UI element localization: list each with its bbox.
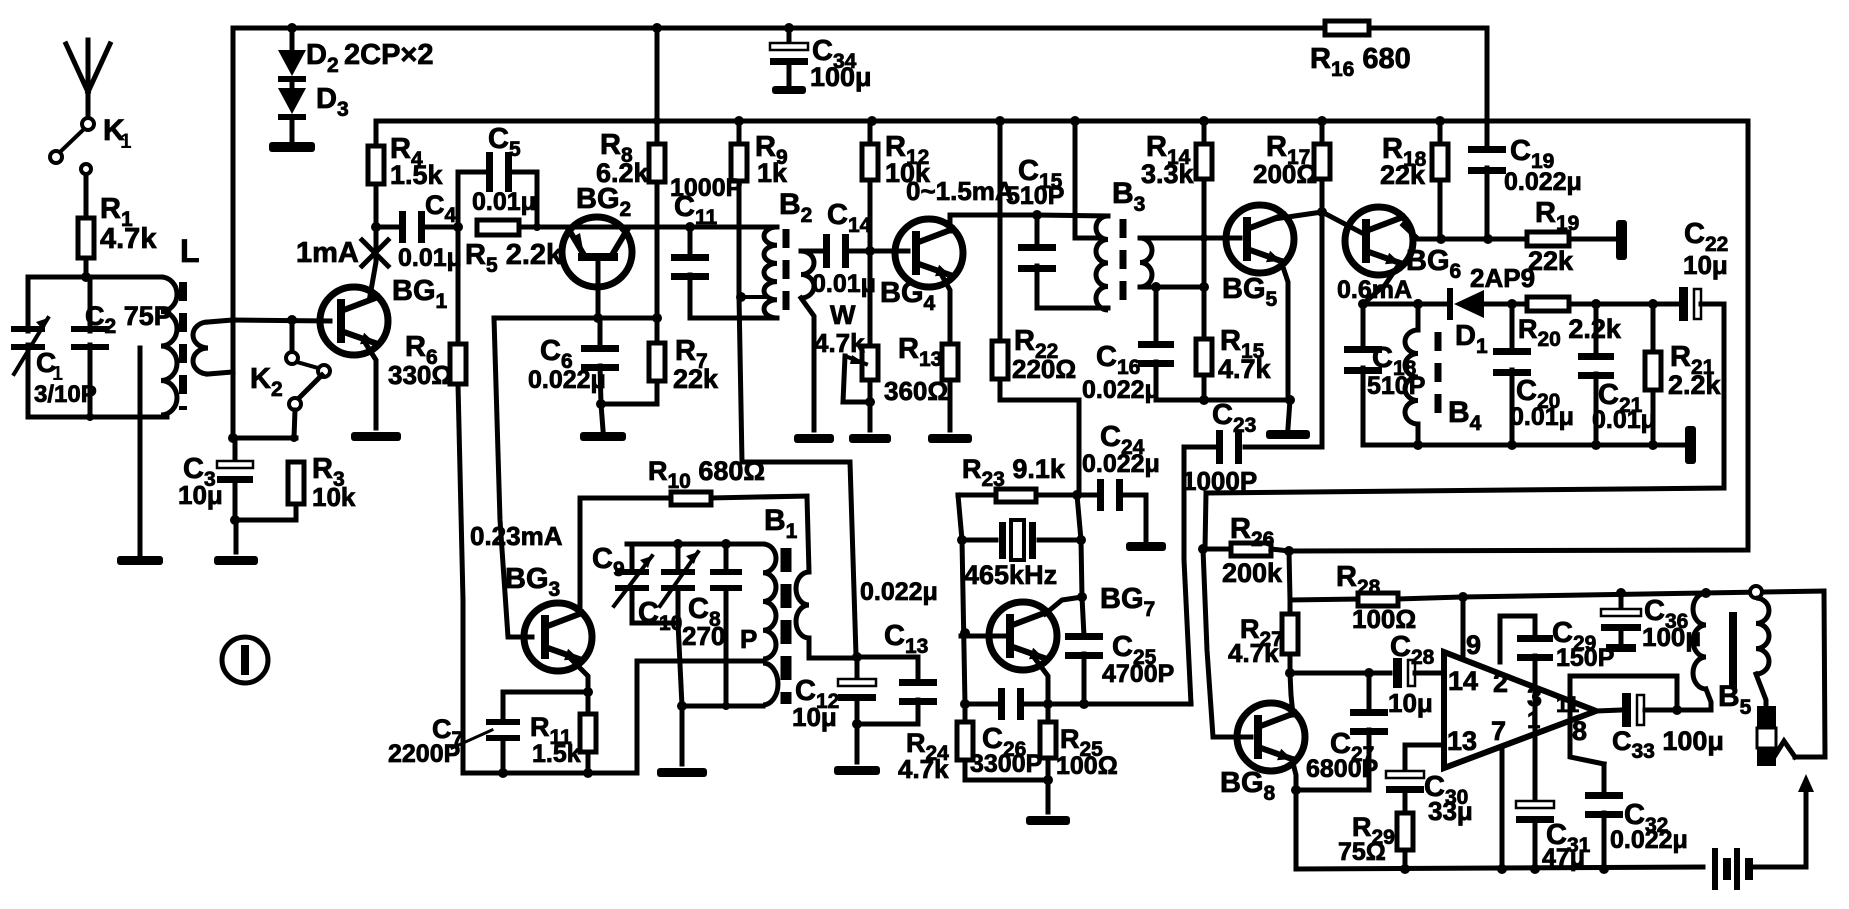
svg-text:10μ: 10μ <box>792 702 837 732</box>
wire: BG6 emitter <box>1363 263 1400 304</box>
wire <box>28 275 161 280</box>
wire <box>233 320 330 321</box>
svg-text:10k: 10k <box>312 482 356 512</box>
svg-text:1k: 1k <box>757 158 788 188</box>
svg-text:220Ω: 220Ω <box>1012 354 1076 384</box>
svg-text:0.01μ: 0.01μ <box>812 270 876 298</box>
wire <box>1369 28 1487 121</box>
transformer B2 core <box>783 229 790 316</box>
resistor R8 <box>652 23 662 33</box>
svg-text:1.5k: 1.5k <box>390 160 444 190</box>
wire <box>1363 443 1688 448</box>
svg-text:200k: 200k <box>1222 558 1283 588</box>
terminal <box>1685 426 1696 464</box>
resistor R4 <box>374 121 379 146</box>
capacitor C34 <box>784 23 794 33</box>
svg-text:0.022μ: 0.022μ <box>528 366 606 394</box>
transformer B1 primary <box>763 544 776 659</box>
svg-text:4.7k: 4.7k <box>898 754 949 784</box>
svg-text:2.2k: 2.2k <box>1668 370 1722 400</box>
capacitor C26 <box>965 702 998 707</box>
wire <box>682 704 763 709</box>
transformer B2 primary <box>764 227 777 318</box>
wire <box>28 415 167 420</box>
switch K2 <box>290 325 295 351</box>
resistor R28 <box>1290 599 1358 600</box>
wire <box>958 495 965 704</box>
svg-text:1mA: 1mA <box>296 237 359 269</box>
resistor R16 <box>1325 21 1369 35</box>
svg-text:33μ: 33μ <box>1428 796 1473 826</box>
svg-text:0.6mA: 0.6mA <box>1337 276 1412 304</box>
capacitor C15 <box>1032 210 1042 220</box>
svg-text:3.3k: 3.3k <box>1141 159 1195 189</box>
resistor R13 <box>941 274 950 344</box>
wire <box>1156 398 1290 403</box>
transistor BG8 <box>1237 703 1305 771</box>
svg-text:465kHz: 465kHz <box>964 560 1057 590</box>
wire <box>1147 236 1240 241</box>
svg-text:4.7k: 4.7k <box>100 223 157 255</box>
capacitor C1 <box>26 277 31 331</box>
capacitor C12 <box>852 652 862 662</box>
capacitor C5 <box>453 222 463 232</box>
svg-text:360Ω: 360Ω <box>884 376 948 406</box>
wire <box>1290 671 1390 676</box>
svg-text:0.022μ: 0.022μ <box>1504 168 1582 196</box>
resistor R9 <box>734 116 744 126</box>
wire <box>950 215 1035 231</box>
wire <box>1036 493 1077 498</box>
wire: BG8 base <box>1203 549 1251 737</box>
transistor BG4 <box>895 219 963 287</box>
capacitor C23 <box>1245 445 1322 450</box>
antenna <box>86 40 91 92</box>
wire: audio rail <box>1463 591 1824 597</box>
capacitor C20 <box>1510 304 1515 352</box>
resistor R25 <box>1046 704 1051 722</box>
wire <box>1156 285 1204 290</box>
earphone <box>1757 706 1776 728</box>
wire <box>1322 212 1364 234</box>
wire: output <box>1596 710 1622 711</box>
resistor R26 <box>1198 544 1208 554</box>
capacitor C25 <box>1082 597 1084 636</box>
svg-text:7: 7 <box>1491 716 1506 746</box>
strain relief <box>1774 741 1795 757</box>
wire: left rail <box>231 28 236 438</box>
switch K1 <box>82 118 94 130</box>
svg-text:200Ω: 200Ω <box>1253 159 1317 189</box>
wire <box>690 225 777 230</box>
wire <box>632 621 678 626</box>
capacitor C27 <box>1367 673 1372 712</box>
wire <box>494 316 657 321</box>
wire <box>578 498 580 614</box>
capacitor C16 <box>1151 282 1161 292</box>
resistor R12 <box>867 116 877 126</box>
capacitor C2 <box>88 277 93 331</box>
wire <box>84 175 89 218</box>
wire <box>742 462 856 655</box>
capacitor C7 <box>501 692 506 721</box>
svg-text:75Ω: 75Ω <box>1338 838 1386 866</box>
capacitor C24 <box>1077 493 1096 498</box>
svg-text:6800P: 6800P <box>1306 755 1378 783</box>
wire <box>233 436 296 441</box>
wire <box>1363 302 1449 307</box>
crystal 465kHz <box>962 538 996 543</box>
wire: osc output <box>1184 447 1191 704</box>
wire <box>503 690 588 695</box>
terminal <box>1616 220 1627 260</box>
svg-text:P: P <box>740 624 757 654</box>
svg-text:0.022μ: 0.022μ <box>1082 376 1160 404</box>
wire <box>1045 597 1082 614</box>
capacitor C31 <box>1516 801 1554 808</box>
ground <box>772 86 806 94</box>
wire <box>84 258 89 277</box>
svg-text:0.022μ: 0.022μ <box>860 578 938 606</box>
svg-text:0.022μ: 0.022μ <box>1082 450 1160 478</box>
capacitor C30 <box>1405 745 1444 772</box>
ground <box>351 432 401 441</box>
wire <box>1274 212 1322 219</box>
svg-text:10μ: 10μ <box>178 480 223 510</box>
svg-text:L: L <box>180 233 200 269</box>
resistor R21 <box>1651 304 1656 352</box>
transformer B5 primary <box>1693 593 1706 689</box>
wire: BG2 emitter <box>596 261 601 318</box>
resistor R3 <box>288 462 304 504</box>
capacitor C29 <box>1500 616 1535 662</box>
transformer B1 secondary <box>807 497 809 572</box>
capacitor C13 <box>857 657 918 682</box>
capacitor C6 <box>598 318 603 349</box>
trimmer C9 <box>630 544 635 572</box>
wire <box>519 225 690 230</box>
wire <box>463 771 637 776</box>
wire <box>1795 591 1825 757</box>
svg-text:22k: 22k <box>1380 160 1426 190</box>
node A <box>371 222 381 232</box>
capacitor C3 <box>233 438 238 462</box>
potentiometer W <box>862 346 878 380</box>
resistor R7 <box>655 318 660 343</box>
wire: BG8 emitter <box>1292 759 1296 790</box>
resistor R23 <box>996 489 1036 502</box>
resistor R15 <box>1202 287 1207 339</box>
svg-text:150P: 150P <box>1556 644 1614 672</box>
capacitor C8 <box>724 544 729 570</box>
ground <box>928 434 972 443</box>
capacitor C33 <box>1622 693 1631 727</box>
svg-text:510P: 510P <box>1006 182 1064 210</box>
svg-text:100Ω: 100Ω <box>1056 752 1118 780</box>
meter symbol I <box>222 637 268 683</box>
svg-text:10μ: 10μ <box>1683 250 1728 280</box>
diode D2 <box>287 23 297 33</box>
wire <box>1037 215 1108 216</box>
capacitor C18 <box>1361 304 1366 350</box>
wire: pin 7 ground <box>1500 747 1505 869</box>
ground <box>849 434 891 443</box>
ground <box>234 520 239 552</box>
transistor BG6 <box>1345 207 1413 275</box>
ground <box>1046 780 1051 812</box>
transformer B3 primary <box>1096 216 1108 310</box>
wire <box>1484 302 1527 307</box>
wire <box>1569 237 1614 242</box>
coupling coil <box>193 322 208 374</box>
capacitor C4 <box>376 225 401 230</box>
transistor BG5 <box>1226 205 1294 273</box>
svg-text:W: W <box>830 300 856 330</box>
wire <box>958 493 996 498</box>
svg-text:2200P: 2200P <box>388 740 460 768</box>
transformer B3 secondary <box>1140 238 1152 287</box>
svg-text:4.7k: 4.7k <box>814 328 865 358</box>
oscillator caps bus <box>627 542 763 547</box>
resistor R10 <box>580 496 671 501</box>
resistor R6 <box>456 227 461 344</box>
wire <box>1320 212 1325 447</box>
svg-text:0.022μ: 0.022μ <box>1610 826 1688 854</box>
wire: BG7 emitter <box>1033 656 1048 704</box>
resistor R19 <box>1527 232 1569 246</box>
svg-text:4.7k: 4.7k <box>1228 638 1279 668</box>
svg-text:330Ω: 330Ω <box>388 360 452 390</box>
inductor L <box>161 277 177 415</box>
wire: audio ground rail <box>1296 867 1703 869</box>
wire <box>1751 865 1806 870</box>
transformer B1 core <box>781 548 792 704</box>
wire <box>1403 225 1530 239</box>
svg-text:1000P: 1000P <box>1182 466 1257 496</box>
wire: top rail <box>233 26 1325 31</box>
transformer B1 tap <box>637 661 763 773</box>
svg-text:14: 14 <box>1448 666 1478 696</box>
transformer B5 core <box>1729 612 1737 688</box>
battery GB <box>1712 848 1718 890</box>
wire <box>1289 551 1290 600</box>
wire <box>1569 302 1680 307</box>
arrow to jack <box>1804 790 1809 867</box>
svg-text:4700P: 4700P <box>1102 660 1174 688</box>
inductor B4 <box>1413 299 1423 309</box>
wire: BG3 emitter <box>570 658 588 692</box>
meter mark X <box>362 240 388 266</box>
svg-text:100Ω: 100Ω <box>1352 604 1416 634</box>
svg-text:2AP9: 2AP9 <box>1470 263 1535 293</box>
capacitor C19 <box>1485 121 1490 150</box>
capacitor C32 <box>1602 764 1607 795</box>
resistor R11 <box>586 692 591 714</box>
svg-text:2: 2 <box>1493 668 1508 698</box>
svg-text:3/10P: 3/10P <box>34 381 97 408</box>
wire <box>1290 673 1293 715</box>
capacitor C11 <box>685 222 695 232</box>
feedback loop <box>1570 676 1677 710</box>
svg-text:22k: 22k <box>673 364 719 394</box>
resistor R14 <box>1199 116 1209 126</box>
ground <box>269 142 315 152</box>
wire: pin3 line <box>1533 656 1538 801</box>
trimmer C10 <box>676 544 681 572</box>
transistor BG3 <box>524 603 592 671</box>
op-amp U1 <box>1444 652 1596 768</box>
wire <box>1077 495 1082 597</box>
svg-text:0.23mA: 0.23mA <box>470 521 563 551</box>
resistor R27 <box>1288 600 1293 614</box>
svg-text:1.5k: 1.5k <box>532 740 581 768</box>
svg-text:0.01μ: 0.01μ <box>398 244 462 272</box>
svg-text:0.01μ: 0.01μ <box>1592 406 1656 434</box>
transformer B5 secondary <box>1750 586 1762 598</box>
capacitor C21 <box>1594 304 1599 356</box>
ground <box>1288 400 1290 428</box>
resistor R1 <box>78 218 94 258</box>
wire <box>961 634 1005 639</box>
ground <box>601 404 603 430</box>
ground <box>855 724 860 762</box>
capacitor C22 <box>1679 287 1688 321</box>
transistor BG7 <box>989 602 1057 670</box>
resistor R17 <box>1317 116 1327 126</box>
ground <box>138 348 143 554</box>
wire <box>1294 790 1299 869</box>
resistor R24 <box>963 704 968 722</box>
transistor BG1 <box>370 227 376 296</box>
svg-text:0.01μ: 0.01μ <box>472 188 536 216</box>
resistor R20 <box>1527 297 1569 311</box>
svg-text:270: 270 <box>682 621 725 651</box>
svg-text:100μ: 100μ <box>810 62 872 92</box>
transformer B2 secondary <box>801 251 814 298</box>
diode D1 <box>1447 288 1453 320</box>
svg-text:13: 13 <box>1447 726 1477 756</box>
ground <box>680 706 685 764</box>
resistor R22 <box>995 116 1005 126</box>
transformer B3 core <box>1120 219 1127 308</box>
capacitor C14 <box>823 234 830 268</box>
svg-text:1: 1 <box>120 130 132 153</box>
wire <box>364 341 376 428</box>
wire <box>1289 121 1748 551</box>
svg-text:0.01μ: 0.01μ <box>1510 403 1574 431</box>
svg-text:9: 9 <box>1466 630 1481 660</box>
capacitor C36 <box>1619 593 1624 608</box>
diode D3 <box>290 82 295 88</box>
svg-text:6.2k: 6.2k <box>596 158 650 188</box>
wire: feedback <box>494 318 532 637</box>
svg-text:47μ: 47μ <box>1542 844 1585 872</box>
svg-text:8: 8 <box>1572 716 1587 746</box>
wire: supply rail 2 <box>376 119 1748 124</box>
svg-text:10μ: 10μ <box>1388 688 1433 718</box>
resistor R29 <box>1397 813 1413 850</box>
transistor BG2 <box>562 217 632 287</box>
resistor R18 <box>1435 116 1445 126</box>
svg-text:3300P: 3300P <box>970 750 1042 778</box>
svg-text:2CP×2: 2CP×2 <box>344 39 433 71</box>
resistor R5 <box>477 220 519 235</box>
svg-text:4.7k: 4.7k <box>1218 354 1272 384</box>
wire: BG5 emitter <box>1281 261 1288 400</box>
capacitor C28 <box>1393 658 1402 688</box>
ground <box>794 434 834 443</box>
